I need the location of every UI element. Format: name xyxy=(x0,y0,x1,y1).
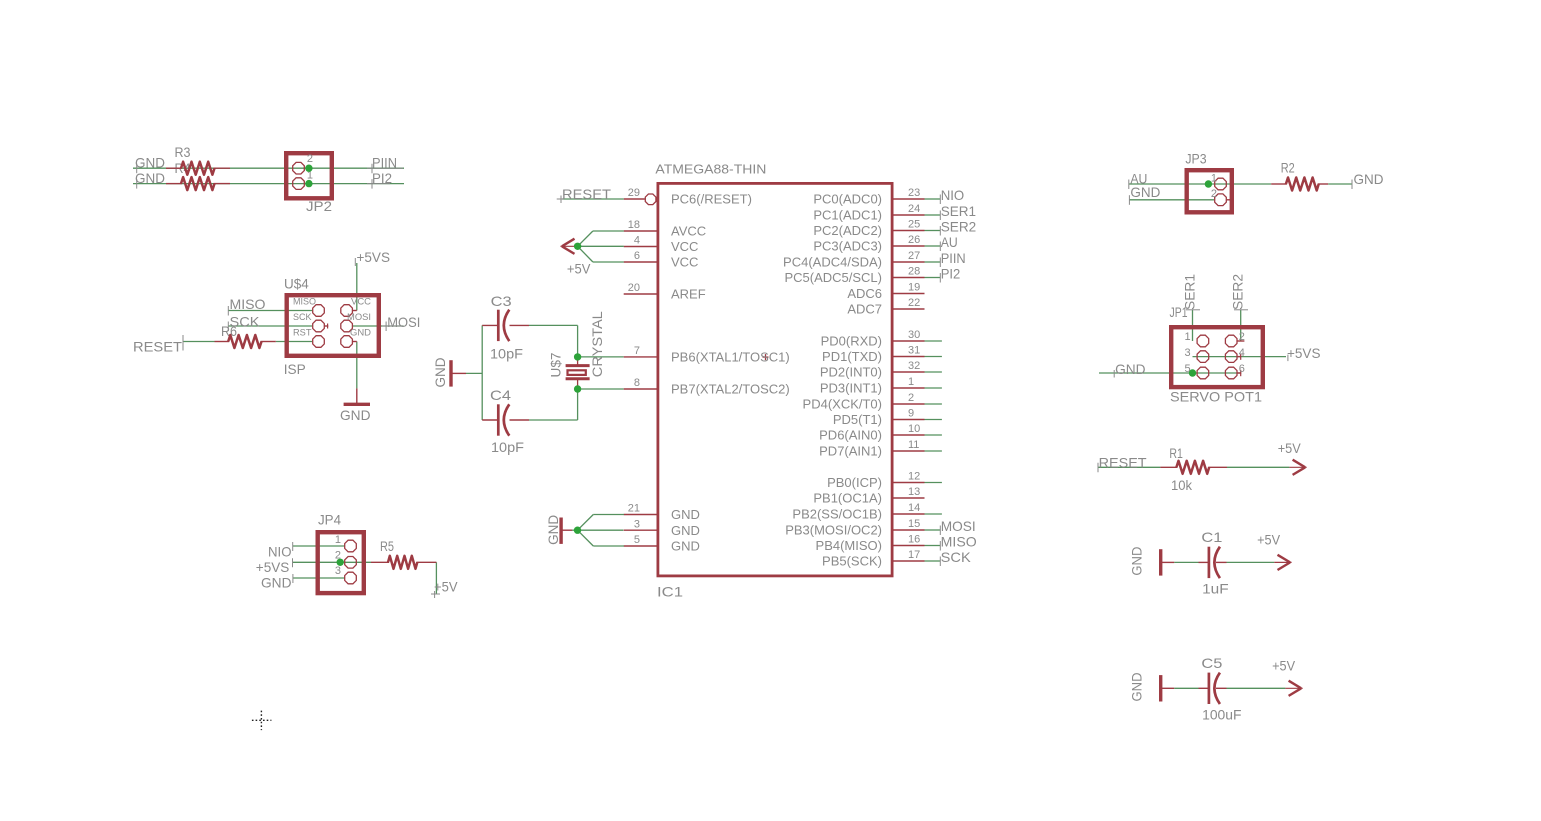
svg-text:PD5(T1): PD5(T1) xyxy=(833,412,882,427)
svg-text:SCK: SCK xyxy=(293,312,312,322)
svg-text:ATMEGA88-THIN: ATMEGA88-THIN xyxy=(655,162,766,177)
svg-text:10pF: 10pF xyxy=(490,346,523,362)
svg-text:ISP: ISP xyxy=(284,361,306,377)
svg-text:PD2(INT0): PD2(INT0) xyxy=(820,365,882,380)
svg-text:C1: C1 xyxy=(1201,529,1222,545)
svg-text:VCC: VCC xyxy=(351,297,372,307)
svg-text:10pF: 10pF xyxy=(491,439,524,455)
svg-text:30: 30 xyxy=(908,329,920,341)
svg-text:13: 13 xyxy=(908,486,920,498)
svg-text:18: 18 xyxy=(628,219,640,231)
svg-text:PC3(ADC3): PC3(ADC3) xyxy=(813,239,882,254)
svg-text:+5VS: +5VS xyxy=(357,249,391,265)
svg-text:+5V: +5V xyxy=(1272,657,1296,673)
svg-text:GND: GND xyxy=(671,523,700,538)
svg-text:8: 8 xyxy=(634,377,640,389)
svg-text:PD0(RXD): PD0(RXD) xyxy=(821,334,882,349)
svg-text:IC1: IC1 xyxy=(657,584,683,600)
svg-text:17: 17 xyxy=(908,549,920,561)
svg-text:MISO: MISO xyxy=(293,297,316,307)
svg-text:PD7(AIN1): PD7(AIN1) xyxy=(819,444,882,459)
svg-text:3: 3 xyxy=(634,518,640,530)
svg-text:15: 15 xyxy=(908,518,920,530)
svg-text:1: 1 xyxy=(1184,331,1190,343)
svg-text:SER1: SER1 xyxy=(941,203,977,219)
svg-text:26: 26 xyxy=(908,234,920,246)
svg-text:U$7: U$7 xyxy=(549,353,564,378)
svg-text:6: 6 xyxy=(634,250,640,262)
svg-text:10: 10 xyxy=(908,423,920,435)
svg-text:GND: GND xyxy=(1115,361,1146,377)
svg-text:20: 20 xyxy=(628,282,640,294)
svg-text:28: 28 xyxy=(908,266,920,278)
svg-text:29: 29 xyxy=(628,187,640,199)
svg-text:U$4: U$4 xyxy=(284,275,309,291)
svg-text:GND: GND xyxy=(1130,184,1160,200)
svg-text:RESET: RESET xyxy=(1099,455,1147,471)
svg-text:32: 32 xyxy=(908,360,920,372)
svg-text:21: 21 xyxy=(628,503,640,515)
svg-text:ADC7: ADC7 xyxy=(847,302,882,317)
svg-text:C3: C3 xyxy=(491,293,512,309)
svg-text:GND: GND xyxy=(671,539,700,554)
svg-text:4: 4 xyxy=(634,235,640,247)
svg-text:PB4(MISO): PB4(MISO) xyxy=(816,538,882,553)
svg-text:ADC6: ADC6 xyxy=(847,286,882,301)
svg-text:16: 16 xyxy=(908,534,920,546)
svg-text:GND: GND xyxy=(545,515,561,545)
svg-text:GND: GND xyxy=(1129,673,1145,702)
svg-text:14: 14 xyxy=(908,502,920,514)
svg-text:MISO: MISO xyxy=(230,296,266,312)
svg-text:GND: GND xyxy=(432,358,448,388)
svg-text:1: 1 xyxy=(1211,172,1217,184)
svg-text:R3: R3 xyxy=(175,144,191,160)
svg-text:1: 1 xyxy=(908,376,914,388)
svg-text:PIIN: PIIN xyxy=(941,250,966,266)
svg-text:+5V: +5V xyxy=(567,261,591,277)
svg-text:VCC: VCC xyxy=(671,255,698,270)
svg-text:AU: AU xyxy=(941,234,958,250)
svg-text:100uF: 100uF xyxy=(1202,706,1241,722)
svg-text:R5: R5 xyxy=(380,538,394,554)
svg-text:PB6(XTAL1/TOSC1): PB6(XTAL1/TOSC1) xyxy=(671,350,790,365)
svg-text:RESET: RESET xyxy=(562,186,611,202)
svg-text:MOSI: MOSI xyxy=(347,312,371,322)
svg-text:MOSI: MOSI xyxy=(941,518,976,534)
svg-text:4: 4 xyxy=(1239,347,1245,359)
svg-text:PC2(ADC2): PC2(ADC2) xyxy=(813,223,882,238)
svg-text:PC5(ADC5/SCL): PC5(ADC5/SCL) xyxy=(784,270,882,285)
svg-text:R2: R2 xyxy=(1281,160,1295,176)
svg-text:10k: 10k xyxy=(1171,477,1193,493)
svg-text:MISO: MISO xyxy=(941,534,977,550)
svg-text:GND: GND xyxy=(340,407,371,423)
svg-text:23: 23 xyxy=(908,187,920,199)
svg-text:1uF: 1uF xyxy=(1202,581,1229,597)
svg-text:2: 2 xyxy=(1239,331,1245,343)
svg-text:25: 25 xyxy=(908,219,920,231)
svg-text:PB0(ICP): PB0(ICP) xyxy=(827,475,882,490)
svg-text:2: 2 xyxy=(908,392,914,404)
svg-text:2: 2 xyxy=(307,153,313,165)
svg-text:12: 12 xyxy=(908,471,920,483)
svg-text:SCK: SCK xyxy=(941,549,972,565)
svg-text:PI2: PI2 xyxy=(941,266,961,282)
svg-text:PB1(OC1A): PB1(OC1A) xyxy=(813,491,882,506)
svg-text:VCC: VCC xyxy=(671,239,698,254)
svg-text:GND: GND xyxy=(671,507,700,522)
svg-text:C5: C5 xyxy=(1201,655,1222,671)
svg-text:JP1: JP1 xyxy=(1170,304,1188,320)
svg-text:GND: GND xyxy=(261,575,292,591)
svg-text:PB5(SCK): PB5(SCK) xyxy=(822,554,882,569)
svg-text:GND: GND xyxy=(350,328,372,338)
svg-text:AVCC: AVCC xyxy=(671,224,706,239)
svg-text:PB3(MOSI/OC2): PB3(MOSI/OC2) xyxy=(785,523,882,538)
svg-text:6: 6 xyxy=(1239,363,1245,375)
svg-text:MOSI: MOSI xyxy=(387,314,420,330)
svg-text:PC6(/RESET): PC6(/RESET) xyxy=(671,192,752,207)
svg-text:C4: C4 xyxy=(490,387,511,403)
svg-text:PB2(SS/OC1B): PB2(SS/OC1B) xyxy=(792,507,882,522)
svg-text:PC4(ADC4/SDA): PC4(ADC4/SDA) xyxy=(783,255,882,270)
svg-text:PC1(ADC1): PC1(ADC1) xyxy=(813,208,882,223)
svg-text:PD4(XCK/T0): PD4(XCK/T0) xyxy=(803,397,882,412)
svg-text:22: 22 xyxy=(908,297,920,309)
svg-text:+5V: +5V xyxy=(434,578,458,594)
svg-text:GND: GND xyxy=(135,170,165,186)
svg-text:9: 9 xyxy=(908,408,914,420)
svg-text:NIO: NIO xyxy=(268,544,292,560)
svg-text:11: 11 xyxy=(908,439,919,451)
svg-text:RESET: RESET xyxy=(133,339,182,355)
svg-text:+5V: +5V xyxy=(1257,532,1281,548)
svg-text:PC0(ADC0): PC0(ADC0) xyxy=(813,192,882,207)
svg-text:1: 1 xyxy=(335,534,341,546)
svg-text:RST: RST xyxy=(293,328,312,338)
svg-text:+5VS: +5VS xyxy=(1287,345,1321,361)
svg-text:24: 24 xyxy=(908,203,920,215)
svg-text:SER2: SER2 xyxy=(941,219,977,235)
svg-text:JP4: JP4 xyxy=(318,512,341,528)
svg-text:JP3: JP3 xyxy=(1185,151,1206,167)
svg-text:27: 27 xyxy=(908,250,920,262)
svg-text:GND: GND xyxy=(1354,171,1384,187)
svg-text:SERVO POT1: SERVO POT1 xyxy=(1170,389,1262,405)
svg-text:GND: GND xyxy=(135,155,165,171)
svg-text:NIO: NIO xyxy=(941,187,965,203)
svg-text:PD3(INT1): PD3(INT1) xyxy=(820,381,882,396)
svg-text:AREF: AREF xyxy=(671,287,706,302)
svg-text:PD1(TXD): PD1(TXD) xyxy=(822,349,882,364)
svg-text:3: 3 xyxy=(335,565,341,577)
svg-text:19: 19 xyxy=(908,282,920,294)
svg-text:R1: R1 xyxy=(1169,445,1183,461)
svg-text:GND: GND xyxy=(1129,547,1145,576)
svg-text:3: 3 xyxy=(1184,347,1190,359)
svg-text:2: 2 xyxy=(1211,188,1217,200)
svg-text:+5V: +5V xyxy=(1278,440,1302,456)
svg-text:31: 31 xyxy=(908,345,920,357)
svg-text:PB7(XTAL2/TOSC2): PB7(XTAL2/TOSC2) xyxy=(671,382,790,397)
svg-text:5: 5 xyxy=(634,534,640,546)
svg-text:7: 7 xyxy=(634,345,640,357)
svg-text:+5VS: +5VS xyxy=(256,559,289,575)
svg-text:PD6(AIN0): PD6(AIN0) xyxy=(819,428,882,443)
svg-text:CRYSTAL: CRYSTAL xyxy=(589,311,605,377)
svg-text:SER2: SER2 xyxy=(1230,274,1246,310)
